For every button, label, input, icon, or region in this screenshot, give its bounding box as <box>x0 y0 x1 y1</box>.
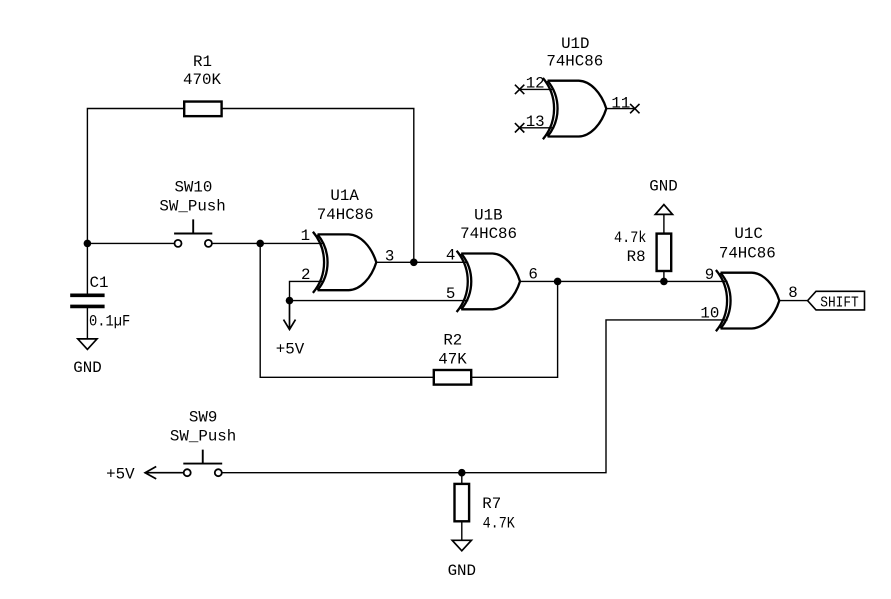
svg-text:74HC86: 74HC86 <box>546 53 603 71</box>
svg-text:10: 10 <box>700 304 719 322</box>
svg-text:6: 6 <box>528 266 537 284</box>
svg-text:GND: GND <box>649 178 677 196</box>
svg-text:+5V: +5V <box>106 465 135 483</box>
svg-text:470K: 470K <box>183 71 221 89</box>
svg-text:R8: R8 <box>627 248 646 266</box>
svg-text:74HC86: 74HC86 <box>719 244 776 262</box>
svg-text:74HC86: 74HC86 <box>317 206 374 224</box>
svg-text:3: 3 <box>385 247 394 265</box>
svg-text:U1B: U1B <box>474 206 502 224</box>
svg-text:U1D: U1D <box>561 35 589 53</box>
svg-text:U1A: U1A <box>330 187 359 205</box>
svg-text:1: 1 <box>301 227 310 245</box>
svg-text:4: 4 <box>446 247 455 265</box>
svg-text:SW_Push: SW_Push <box>170 428 236 446</box>
svg-text:47K: 47K <box>438 351 467 369</box>
svg-text:4.7k: 4.7k <box>614 229 646 247</box>
svg-text:74HC86: 74HC86 <box>460 225 517 243</box>
svg-text:13: 13 <box>526 113 545 131</box>
svg-text:SHIFT: SHIFT <box>820 296 859 312</box>
svg-text:SW10: SW10 <box>174 179 212 197</box>
svg-text:5: 5 <box>446 285 455 303</box>
svg-text:U1C: U1C <box>734 225 762 243</box>
svg-text:C1: C1 <box>90 274 109 292</box>
svg-text:0.1µF: 0.1µF <box>89 313 130 331</box>
svg-text:12: 12 <box>526 74 545 92</box>
svg-text:R2: R2 <box>443 331 462 349</box>
svg-text:11: 11 <box>611 94 630 112</box>
svg-text:R1: R1 <box>193 53 212 71</box>
svg-text:GND: GND <box>73 359 101 377</box>
svg-text:SW9: SW9 <box>189 409 217 427</box>
svg-text:SW_Push: SW_Push <box>159 198 225 216</box>
svg-text:4.7K: 4.7K <box>483 515 516 533</box>
svg-text:2: 2 <box>301 266 310 284</box>
svg-text:8: 8 <box>788 284 797 302</box>
svg-text:9: 9 <box>705 266 714 284</box>
svg-text:GND: GND <box>448 562 476 580</box>
svg-text:+5V: +5V <box>276 341 305 359</box>
svg-text:R7: R7 <box>482 495 501 513</box>
